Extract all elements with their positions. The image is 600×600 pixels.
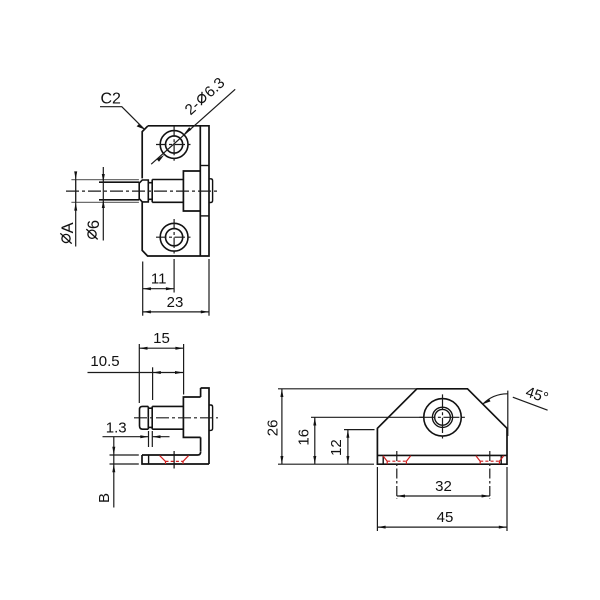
svg-text:32: 32 xyxy=(435,478,452,495)
pin groove side view xyxy=(148,407,152,409)
base chamfer line right xyxy=(500,455,502,464)
dim 45 degrees xyxy=(483,391,548,436)
dim 23 xyxy=(143,259,209,316)
dim 12 xyxy=(344,430,375,465)
horizontal leg xyxy=(142,452,209,464)
pin head side view xyxy=(140,406,149,429)
pin shank side view xyxy=(152,406,183,429)
bottom hole inner circle xyxy=(166,229,183,246)
base chamfer line left xyxy=(382,455,384,464)
trapezoid outline xyxy=(377,389,507,464)
countersink red side view xyxy=(160,456,189,464)
strip division lower xyxy=(200,215,209,217)
top hole outer circle xyxy=(160,131,188,159)
svg-text:10.5: 10.5 xyxy=(90,353,119,370)
pin tip side view xyxy=(209,405,213,430)
svg-text:A: A xyxy=(59,222,77,233)
base plate top line xyxy=(377,454,507,456)
svg-text:12: 12 xyxy=(328,439,345,456)
svg-text:1.3: 1.3 xyxy=(106,420,127,437)
hole centerline side view xyxy=(173,451,175,469)
boss on plate xyxy=(183,171,200,211)
top hole inner circle xyxy=(166,136,183,153)
svg-text:15: 15 xyxy=(153,330,170,347)
dim diam A label xyxy=(59,222,77,243)
hole centerline right xyxy=(489,451,491,499)
dim 11 xyxy=(143,259,174,316)
label 2-diam6.3 with leader through hole xyxy=(151,89,235,164)
leg chamfer division xyxy=(148,455,150,464)
svg-text:45: 45 xyxy=(437,509,454,526)
dim B xyxy=(110,437,139,508)
top hole crosshair xyxy=(156,126,192,162)
bottom hole outer circle xyxy=(160,223,188,251)
central hole crosshair xyxy=(419,394,466,440)
pin thread root lines xyxy=(99,181,139,183)
dim diam A line xyxy=(75,172,77,247)
dim diam 6 line xyxy=(102,167,104,241)
bottom hole crosshair xyxy=(156,219,192,255)
svg-text:B: B xyxy=(96,493,113,503)
pin centerline side view xyxy=(134,417,218,419)
pin thread outline thin gray xyxy=(71,180,138,203)
plate inner face line xyxy=(199,126,201,256)
pin centerline xyxy=(66,190,217,192)
pin tip protruding right xyxy=(209,179,213,203)
dim 15 xyxy=(139,344,183,403)
svg-text:23: 23 xyxy=(167,294,184,311)
dim diam 6 label xyxy=(85,220,103,239)
dim 16 xyxy=(311,417,424,464)
plate outline with C2 chamfers xyxy=(142,126,209,256)
central hole circles xyxy=(424,399,462,437)
vertical flange xyxy=(201,388,209,464)
strip division upper xyxy=(200,165,209,167)
svg-text:6: 6 xyxy=(85,220,103,229)
right countersink red xyxy=(476,456,504,465)
pin shank xyxy=(152,180,183,203)
dim 10.5 xyxy=(88,367,184,400)
dim diam A arrows xyxy=(74,171,77,210)
svg-text:16: 16 xyxy=(295,429,312,446)
dim 26 xyxy=(278,389,417,464)
dim 1.3 xyxy=(103,431,170,447)
left countersink red xyxy=(383,456,411,465)
pin neck groove xyxy=(148,182,152,184)
svg-text:C2: C2 xyxy=(101,91,122,108)
hole centerline left xyxy=(396,451,398,499)
svg-text:11: 11 xyxy=(151,271,167,288)
boss side view xyxy=(183,397,200,437)
dim diam 6 arrows xyxy=(102,174,105,208)
dim 45 xyxy=(377,467,507,531)
dim 32 xyxy=(397,495,490,497)
svg-text:26: 26 xyxy=(265,420,282,437)
pin collar xyxy=(139,180,148,202)
